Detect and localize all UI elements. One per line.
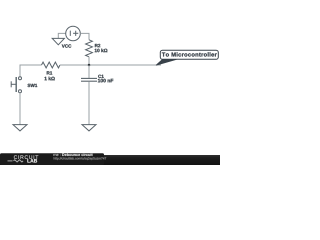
ground (near VCC)	[52, 38, 64, 44]
label R2 10 kOhm	[95, 44, 108, 52]
wire node to C1 top	[88, 65, 90, 78]
net flag tail	[156, 59, 177, 65]
voltage source V1 VCC	[66, 26, 81, 41]
wire VCC right terminal to R2 top	[80, 33, 89, 39]
wire R2 bottom to node	[88, 57, 90, 65]
label VCC	[62, 44, 72, 47]
resistor R1	[42, 62, 61, 68]
wire SW1 bottom to ground	[19, 93, 21, 125]
node junction at R2/C1	[88, 64, 91, 67]
wire R1 right to flag	[60, 64, 161, 66]
wire C1 bottom to ground	[88, 82, 90, 125]
wire VCC left terminal to ground	[58, 33, 66, 38]
watermark text	[53, 153, 106, 160]
switch SW1	[11, 77, 21, 93]
label R1 1 kOhm	[45, 71, 55, 80]
ground (left bottom)	[13, 125, 27, 131]
net flag To Microcontroller	[160, 50, 218, 59]
ground (right bottom)	[82, 125, 96, 131]
label SW1	[28, 84, 38, 87]
wire left column top	[20, 65, 42, 77]
label C1 100 nF	[98, 75, 113, 83]
watermark CircuitLab logo	[8, 155, 39, 162]
capacitor C1	[81, 78, 97, 81]
resistor R2	[86, 40, 93, 57]
